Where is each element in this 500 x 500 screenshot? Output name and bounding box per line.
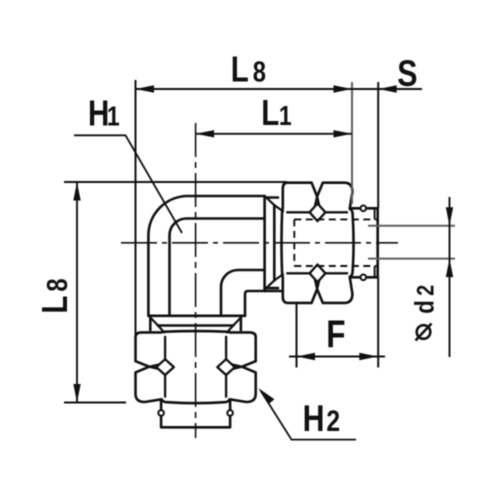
- L8 left arrow: [136, 85, 155, 92]
- S right arrow: [378, 85, 397, 92]
- F left extension: [296, 304, 298, 368]
- bottom port collar edges: [150, 316, 241, 330]
- L8 left extension: [135, 80, 137, 337]
- L8 vertical top extension: [64, 181, 287, 183]
- label F: [326, 314, 345, 357]
- centerlines: [121, 123, 398, 438]
- bottom port collar chamfers: [150, 318, 241, 326]
- svg-text:L: L: [34, 296, 74, 314]
- arrowheads: [73, 85, 453, 404]
- H2 leader: [261, 391, 357, 440]
- bottom port washer bevels: [158, 326, 233, 333]
- svg-text:1: 1: [107, 101, 120, 132]
- L8 vertical top arrow: [73, 182, 80, 201]
- L8 vertical bottom arrow: [73, 384, 80, 403]
- F dimension line: [289, 356, 385, 358]
- label H1: [88, 93, 120, 133]
- phi-d2 dimension line: [449, 197, 451, 357]
- bottom nut assembly: [136, 331, 256, 427]
- boss shoulder: inner arc + lines: [170, 219, 265, 316]
- phi-d2 extension lines: [368, 225, 455, 227]
- vertical L8 dimension line: [76, 182, 78, 403]
- right port washer bevels: [274, 205, 283, 280]
- svg-text:2: 2: [326, 403, 340, 437]
- right nut assembly: [282, 183, 378, 303]
- H1 leader: [74, 135, 182, 233]
- L1 left arrow: [196, 130, 215, 137]
- diameter symbol: [417, 325, 431, 339]
- svg-text:8: 8: [41, 278, 74, 291]
- L8 right / S left arrow: [334, 85, 353, 92]
- gray extension lines: [352, 82, 455, 259]
- black extension lines: [64, 80, 378, 403]
- svg-text:1: 1: [279, 101, 292, 132]
- svg-text:L: L: [261, 92, 279, 132]
- S right extension / F right extension (stub end line): [377, 82, 379, 208]
- label L8 (top): [231, 49, 266, 89]
- F left arrow: [297, 353, 316, 360]
- svg-text:H: H: [303, 398, 325, 440]
- label L8 (vertical): [34, 278, 74, 313]
- label S: [397, 53, 417, 95]
- L1 right arrow: [334, 130, 353, 137]
- svg-text:L: L: [231, 49, 249, 89]
- L8 + S dimension line: [136, 88, 423, 90]
- ext line at fitting shoulder (L8/L1 right, S left): [351, 82, 353, 204]
- body block bottom-right corner: [245, 291, 283, 316]
- H2 arrow: [258, 388, 274, 404]
- svg-text:d: d: [411, 300, 441, 314]
- label H2: [303, 398, 340, 440]
- L8 vertical bottom extension: [64, 402, 126, 404]
- svg-text:S: S: [397, 53, 417, 95]
- right port collar chamfers: [266, 198, 274, 289]
- dimension lines: [74, 89, 450, 440]
- boss fillet (inner corner): [221, 270, 265, 316]
- horizontal centerline: [121, 242, 398, 244]
- vertical centerline: [195, 123, 197, 438]
- svg-text:8: 8: [253, 55, 266, 88]
- svg-text:F: F: [326, 314, 345, 357]
- label phi-d2 (rotated): [411, 285, 441, 314]
- label L1: [261, 92, 291, 132]
- L1 dimension line: [196, 133, 352, 135]
- hidden thread lines in right nut: [294, 219, 376, 266]
- phi-d2 bottom arrow: [446, 259, 453, 278]
- svg-text:2: 2: [412, 285, 439, 296]
- F right arrow: [359, 353, 378, 360]
- thread runout marks on right stub: [374, 209, 376, 277]
- body bottom face line: [148, 314, 245, 317]
- phi-d2 top arrow: [446, 207, 453, 226]
- elbow body outline: [148, 196, 264, 316]
- right port collar edges: [265, 198, 278, 289]
